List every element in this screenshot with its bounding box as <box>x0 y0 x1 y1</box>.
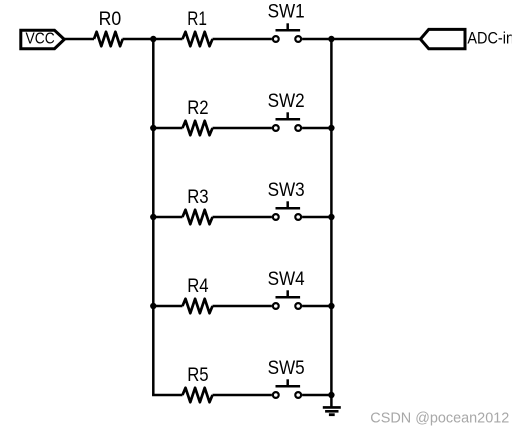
wire R1 to SW1 <box>213 38 272 41</box>
wire SW3 to right bus <box>302 216 331 219</box>
wire SW2 to right bus <box>302 127 331 130</box>
junction dot row4 left <box>150 303 156 309</box>
resistor R3 <box>183 187 213 224</box>
junction dot row2 right <box>328 125 334 131</box>
switch SW1 <box>268 1 305 42</box>
svg-text:R2: R2 <box>187 98 208 119</box>
switch SW2 <box>268 91 305 131</box>
wire SW5 to right bus <box>302 394 331 397</box>
left bus wire (node A vertical) <box>152 39 155 395</box>
svg-text:SW4: SW4 <box>268 269 305 290</box>
svg-text:R4: R4 <box>187 276 209 297</box>
svg-text:SW3: SW3 <box>268 180 305 201</box>
wire R0 to node A <box>123 38 154 41</box>
junction dot row3 left <box>150 214 156 220</box>
svg-text:VCC: VCC <box>26 31 55 48</box>
svg-text:R3: R3 <box>187 187 208 208</box>
ground <box>323 395 341 415</box>
net flag VCC <box>21 30 65 48</box>
svg-text:CSDN @pocean2012: CSDN @pocean2012 <box>370 411 509 427</box>
node A junction dot <box>150 36 156 42</box>
switch SW3 <box>268 180 305 220</box>
junction dot row1 right <box>328 36 334 42</box>
wire R3 to SW3 <box>213 216 272 219</box>
wire bus corner to R5 <box>152 394 182 397</box>
wire SW4 to right bus <box>302 305 331 308</box>
junction dot row4 right <box>328 303 334 309</box>
wire right bus to ADC flag <box>331 38 420 41</box>
net flag ADC-in <box>420 29 514 49</box>
svg-text:R1: R1 <box>187 9 207 30</box>
wire R4 to SW4 <box>213 305 272 308</box>
switch SW4 <box>268 269 305 309</box>
resistor R4 <box>183 276 213 313</box>
junction dot row5 right <box>328 392 334 398</box>
wire bus to R4 <box>153 305 182 308</box>
resistor R5 <box>183 365 213 402</box>
svg-text:R5: R5 <box>187 365 208 386</box>
wire R2 to SW2 <box>213 127 272 130</box>
resistor R2 <box>183 98 213 135</box>
junction dot row3 right <box>328 214 334 220</box>
svg-text:ADC-in: ADC-in <box>467 29 514 48</box>
wire bus to R2 <box>153 127 182 130</box>
svg-text:R0: R0 <box>99 9 122 30</box>
wire node A to R1 <box>153 38 182 41</box>
wire SW1 to right bus <box>302 38 331 41</box>
svg-text:SW2: SW2 <box>268 91 305 112</box>
resistor R1 <box>183 9 213 46</box>
wire bus to R3 <box>153 216 182 219</box>
switch SW5 <box>268 358 305 398</box>
right bus wire (ADC node vertical) <box>330 39 333 395</box>
resistor R0 <box>94 9 123 46</box>
wire VCC to R0 <box>64 38 94 41</box>
svg-text:SW1: SW1 <box>268 1 305 22</box>
svg-text:SW5: SW5 <box>268 358 305 379</box>
wire R5 to SW5 <box>213 394 272 397</box>
junction dot row2 left <box>150 125 156 131</box>
